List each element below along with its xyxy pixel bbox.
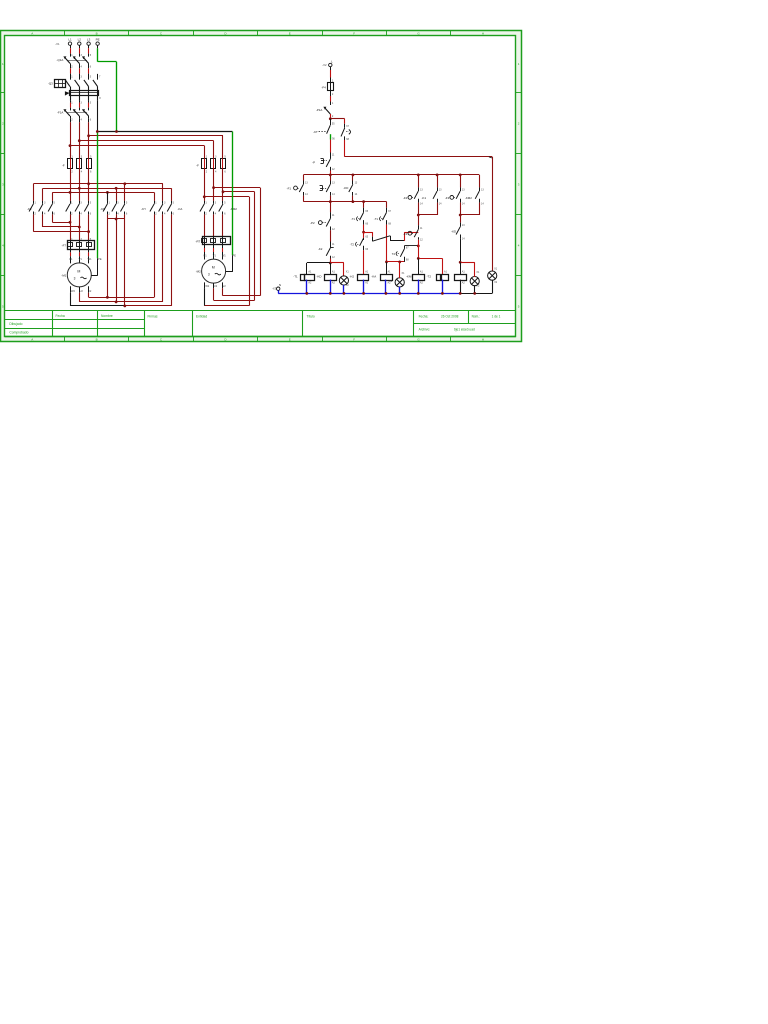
svg-text:-F4: -F4 [321, 86, 326, 90]
svg-text:6je1 eise0.uad: 6je1 eise0.uad [454, 327, 475, 331]
svg-text:-F: -F [196, 164, 199, 168]
svg-text:-T1: -T1 [351, 217, 356, 221]
svg-text:3: 3 [74, 277, 76, 281]
svg-text:-T1: -T1 [374, 217, 379, 221]
svg-text:PE: PE [98, 257, 102, 261]
svg-text:-KY: -KY [141, 207, 146, 211]
svg-text:-X3: -X3 [272, 287, 277, 291]
svg-text:-F7: -F7 [62, 243, 67, 247]
svg-text:Archivo:: Archivo: [419, 327, 431, 331]
svg-text:-KD: -KD [343, 186, 348, 190]
svg-text:-RT: -RT [196, 239, 201, 243]
svg-text:-F1: -F1 [287, 186, 292, 190]
svg-text:V2: V2 [223, 284, 227, 288]
svg-text:U2: U2 [214, 284, 218, 288]
svg-text:W2: W2 [205, 284, 209, 288]
svg-text:-Q3: -Q3 [48, 81, 53, 85]
svg-text:-KD: -KD [317, 275, 322, 279]
svg-text:Comprobado: Comprobado [9, 331, 28, 335]
svg-text:1 de 1: 1 de 1 [492, 315, 501, 319]
svg-text:-P2: -P2 [310, 221, 315, 225]
svg-text:A: A [31, 32, 33, 36]
svg-text:U1: U1 [69, 257, 73, 261]
svg-text:-F1: -F1 [403, 232, 408, 236]
svg-text:B: B [96, 338, 98, 342]
svg-text:-M1: -M1 [61, 273, 66, 277]
svg-text:-T2: -T2 [427, 275, 432, 279]
svg-text:-K2: -K2 [318, 247, 323, 251]
svg-text:-KM: -KM [406, 275, 412, 279]
svg-text:-X1: -X1 [55, 42, 60, 46]
svg-text:-K1: -K1 [422, 196, 427, 200]
svg-text:E: E [289, 32, 291, 36]
svg-text:W1: W1 [88, 257, 92, 261]
svg-text:-KT: -KT [313, 130, 318, 134]
svg-text:M: M [77, 269, 80, 273]
svg-text:-P: -P [312, 160, 315, 164]
svg-text:-KM2: -KM2 [230, 207, 237, 211]
svg-text:-Q1A: -Q1A [57, 58, 64, 62]
svg-text:-P1A: -P1A [316, 108, 322, 112]
svg-text:B: B [96, 32, 98, 36]
svg-text:F: F [353, 338, 355, 342]
svg-text:-KA: -KA [371, 275, 376, 279]
svg-text:-X2: -X2 [322, 63, 327, 67]
svg-text:Dibujado: Dibujado [9, 322, 22, 326]
svg-text:-T1: -T1 [293, 275, 298, 279]
svg-text:-F2: -F2 [403, 196, 408, 200]
svg-text:U1: U1 [203, 254, 207, 258]
svg-text:M: M [212, 266, 215, 270]
svg-text:-KD: -KD [100, 207, 105, 211]
svg-text:H: H [482, 338, 484, 342]
svg-text:Firmas: Firmas [148, 314, 158, 318]
svg-text:T2: T2 [392, 252, 396, 256]
svg-text:Fecha: Fecha [56, 314, 65, 318]
svg-text:-F1A: -F1A [57, 111, 63, 115]
svg-text:N: N [279, 283, 281, 287]
svg-text:A: A [31, 338, 33, 342]
svg-text:E: E [289, 338, 291, 342]
svg-text:L2: L2 [78, 38, 82, 42]
svg-text:-T2: -T2 [350, 242, 355, 246]
svg-text:-KA: -KA [178, 207, 183, 211]
svg-text:H: H [482, 32, 484, 36]
svg-text:-KM2: -KM2 [465, 196, 472, 200]
svg-text:26 Oct 2008: 26 Oct 2008 [441, 315, 459, 319]
svg-text:W1: W1 [222, 254, 226, 258]
svg-text:-F: -F [62, 164, 65, 168]
svg-text:-H2: -H2 [350, 274, 355, 278]
svg-text:Entidad: Entidad [196, 314, 207, 318]
svg-text:Título: Título [307, 314, 315, 318]
svg-text:-M2: -M2 [196, 270, 201, 274]
svg-text:L3: L3 [87, 38, 91, 42]
svg-text:Nombre: Nombre [101, 314, 113, 318]
svg-text:W2: W2 [71, 289, 75, 293]
svg-text:Fecha:: Fecha: [419, 315, 429, 319]
svg-text:V1: V1 [79, 257, 83, 261]
svg-text:-F3: -F3 [445, 196, 450, 200]
svg-text:Núm.:: Núm.: [472, 315, 481, 319]
svg-text:PE: PE [96, 38, 100, 42]
svg-text:-K2: -K2 [27, 207, 32, 211]
svg-text:F: F [353, 32, 355, 36]
svg-text:V1: V1 [213, 254, 217, 258]
svg-text:-KD: -KD [451, 230, 456, 234]
svg-text:L1: L1 [68, 38, 72, 42]
svg-text:U2: U2 [80, 289, 84, 293]
svg-text:3: 3 [208, 273, 210, 277]
